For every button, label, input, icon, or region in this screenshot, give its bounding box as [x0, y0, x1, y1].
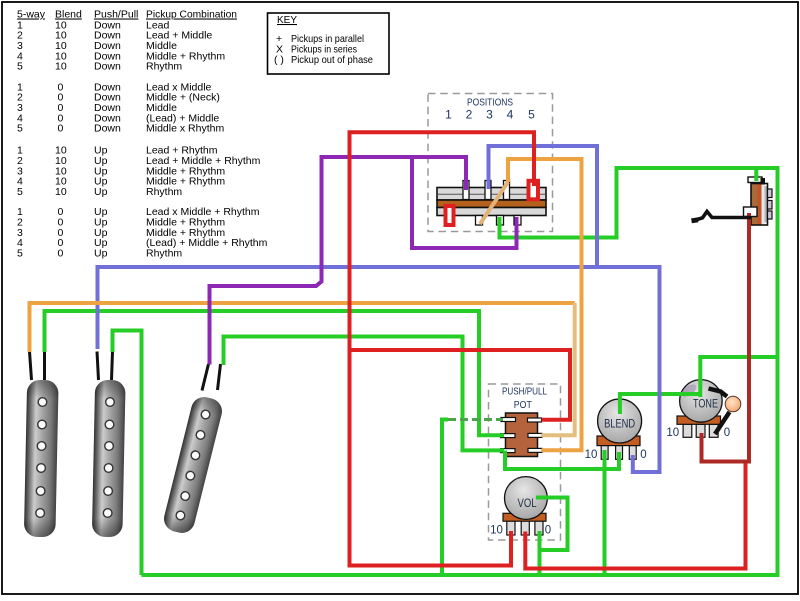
pickup 3 lead wires (black): [202, 364, 221, 391]
svg-text:10: 10: [666, 427, 679, 439]
tone pot lugs and base: [677, 416, 721, 437]
svg-text:10: 10: [55, 186, 67, 198]
blend pot knob: [598, 399, 642, 443]
switch bottom lug 1: [476, 216, 483, 226]
svg-text:POT: POT: [514, 400, 532, 411]
tone knob shading smudge: [679, 382, 698, 399]
switch bottom lug 2: [497, 216, 504, 226]
label tone pot: [666, 397, 730, 440]
capacitor on tone pot: [709, 389, 741, 435]
svg-text:5: 5: [17, 186, 23, 198]
svg-text:2: 2: [466, 108, 473, 122]
svg-text:0: 0: [58, 248, 64, 260]
svg-text:VOL: VOL: [518, 496, 537, 510]
wire green: pickup2 ground down to ground bus: [113, 331, 142, 576]
wire green: pickup1 hot to push/pull left middle lug: [45, 311, 505, 435]
switch top lug 3: [504, 181, 510, 200]
svg-text:5: 5: [17, 248, 23, 260]
svg-text:0: 0: [545, 525, 551, 537]
svg-text:10: 10: [585, 449, 598, 461]
svg-text:0: 0: [58, 123, 64, 135]
wire green: blend pot casing to tone branch: [620, 394, 700, 414]
svg-text:0: 0: [724, 427, 730, 439]
svg-text:Rhythm: Rhythm: [146, 61, 182, 73]
pickup 2 lead wires (black): [97, 352, 113, 381]
label blend pot: [585, 417, 647, 462]
5-way switch SW1 body: [437, 188, 546, 216]
svg-text:Pickup out of phase: Pickup out of phase: [291, 54, 373, 66]
push/pull pot DPDT switch body: [506, 413, 538, 457]
volume pot lugs and base: [503, 513, 546, 535]
wire tan: down to push/pull right middle lug: [542, 303, 575, 435]
wire red: switch output lug to volume left lug: [350, 132, 535, 565]
blend pot lugs and base: [597, 436, 640, 459]
wire green: stub to jack tip lug: [754, 168, 758, 181]
svg-text:BLEND: BLEND: [604, 417, 635, 431]
pickup combination table: [17, 9, 268, 260]
push/pull right lugs: [528, 418, 543, 452]
svg-text:Down: Down: [94, 61, 121, 73]
switch top lug 1: [463, 181, 469, 200]
ground wire black: jack sleeve with strain bump: [692, 212, 752, 221]
svg-text:( ): ( ): [274, 54, 284, 66]
svg-text:Down: Down: [94, 123, 121, 135]
svg-text:1: 1: [445, 108, 452, 122]
svg-text:TONE: TONE: [693, 397, 718, 411]
pickup 1 lead wires (black): [30, 352, 45, 381]
wire orange: switch lug3 jumper to push/pull bottom right lug: [508, 159, 582, 450]
svg-text:10: 10: [490, 525, 503, 537]
svg-text:Rhythm: Rhythm: [146, 248, 182, 260]
svg-text:KEY: KEY: [277, 14, 297, 26]
push/pull left lugs: [501, 418, 516, 453]
pickup 1 (lead) body: [24, 380, 59, 538]
svg-text:4: 4: [507, 108, 514, 122]
pickup 2 (middle) body: [92, 380, 126, 538]
volume pot knob: [505, 477, 548, 520]
switch bottom lug 3: [514, 216, 521, 226]
wire green: branch to tone pot casing: [700, 357, 777, 397]
svg-text:PUSH/PULL: PUSH/PULL: [502, 387, 547, 398]
key box: [268, 13, 390, 74]
svg-text:5: 5: [528, 108, 535, 122]
svg-text:5: 5: [17, 123, 23, 135]
positions box: [428, 94, 553, 232]
wire red: volume middle lug to output: [525, 462, 745, 569]
wire orange: pickup1 hot lead up to bus: [30, 303, 575, 352]
wire dark red: jack hot to tone middle lug: [702, 213, 750, 462]
wire green: volume casing loop to ground bus: [536, 498, 568, 551]
svg-text:3: 3: [486, 108, 493, 122]
svg-text:0: 0: [640, 449, 646, 461]
wire green: ground bus along bottom up right side to jack: [142, 168, 778, 575]
output jack J1: [744, 177, 773, 225]
switch top lug 2: [485, 181, 491, 200]
wire green: blend middle lug to push/pull bottom left lug: [505, 451, 619, 470]
wire green: blend left lug to ground bus: [603, 450, 607, 575]
svg-text:Middle x Rhythm: Middle x Rhythm: [146, 123, 224, 135]
label volume pot: [490, 496, 551, 537]
wire purple: pickup3 hot to switch top lug 1: [210, 157, 467, 365]
label push/pull pot: [502, 387, 547, 412]
switch output lug (red, top right): [529, 181, 539, 200]
wire tan: diagonal jumper inside switch: [480, 182, 508, 224]
svg-text:Up: Up: [94, 248, 108, 260]
wire green: pickup3 ground to push/pull left bottom lug: [224, 337, 505, 451]
svg-text:10: 10: [55, 61, 67, 73]
switch common lug (red, bottom left): [446, 206, 454, 225]
svg-text:5: 5: [17, 61, 23, 73]
svg-text:Up: Up: [94, 186, 108, 198]
wire green: ground bus branch up to push/pull top left lug (dashed): [442, 420, 448, 576]
wire red: branch to push/pull top right lug: [350, 350, 571, 420]
pickup 3 (rhythm) body: [161, 394, 224, 535]
dashed box around push/pull pot and volume pot: [489, 384, 561, 540]
wire blue: switch lug3 down and pickup2 hot to blend right lug: [489, 146, 598, 267]
svg-text:Rhythm: Rhythm: [146, 186, 182, 198]
wire purple: branch to switch bottom lug 3: [412, 157, 517, 248]
tone pot knob: [680, 380, 723, 423]
